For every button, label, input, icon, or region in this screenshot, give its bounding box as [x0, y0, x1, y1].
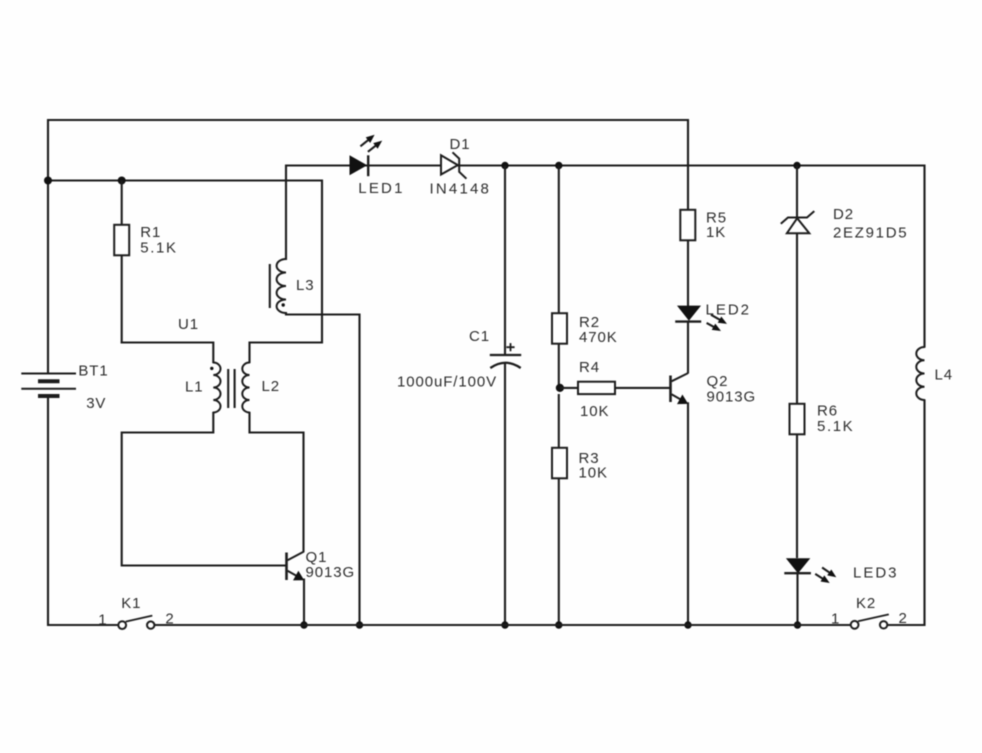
node C1 top — [501, 162, 508, 169]
svg-text:R4: R4 — [579, 359, 600, 376]
svg-text:K2: K2 — [856, 595, 876, 612]
svg-text:10K: 10K — [579, 465, 608, 482]
node Q1 emitter / ground rail — [300, 621, 307, 628]
svg-text:L3: L3 — [296, 277, 315, 294]
node C1 bottom rail — [501, 621, 508, 628]
svg-text:L4: L4 — [935, 367, 954, 384]
LED LED2 — [677, 306, 701, 321]
LED LED3 — [786, 558, 810, 573]
svg-text:LED2: LED2 — [706, 302, 752, 319]
capacitor C1 — [504, 166, 506, 356]
svg-text:9013G: 9013G — [306, 564, 356, 581]
LED LED1 — [350, 155, 368, 175]
transistor Q2 — [669, 376, 672, 403]
battery BT1 — [21, 374, 76, 397]
winding L1 — [213, 363, 220, 413]
polarity dot L3 — [282, 303, 285, 306]
resistor R5 — [687, 119, 689, 211]
svg-text:L1: L1 — [185, 379, 204, 396]
node R2 top — [555, 162, 562, 169]
resistor R1 — [121, 181, 123, 226]
node junction at left rail — [44, 177, 52, 185]
svg-text:L2: L2 — [262, 378, 281, 395]
winding L3 with branch wires — [285, 165, 287, 261]
svg-text:D1: D1 — [450, 136, 471, 153]
wire bottom rail segments — [48, 624, 118, 626]
svg-text:BT1: BT1 — [78, 363, 108, 380]
wire left vertical (battery branch) — [47, 119, 49, 374]
resistor R2 — [558, 166, 560, 315]
node R2/R3/R4 junction — [556, 384, 564, 392]
diode D1 IN4148 — [441, 155, 458, 174]
svg-text:Q2: Q2 — [707, 373, 729, 390]
wire LED2 to Q2 collector — [687, 322, 689, 374]
svg-text:C1: C1 — [469, 328, 490, 345]
svg-text:3V: 3V — [86, 395, 106, 412]
switch K1 — [118, 621, 126, 629]
svg-text:2: 2 — [899, 610, 908, 627]
transformer core — [227, 369, 229, 408]
wire R1 to L1 top — [121, 343, 214, 364]
zener diode D2 — [796, 166, 798, 218]
wire +V sub rail — [48, 179, 322, 181]
svg-text:1000uF/100V: 1000uF/100V — [397, 374, 497, 391]
svg-text:D2: D2 — [833, 206, 854, 223]
wire D2 to R6 — [796, 233, 798, 403]
L3 core bar — [269, 264, 271, 308]
svg-text:1: 1 — [98, 612, 107, 629]
node junction at R1 top — [118, 177, 126, 185]
node D2 top — [793, 162, 800, 169]
node L3 branch / bottom rail — [356, 621, 363, 628]
wire top rail — [48, 119, 688, 121]
wire Q1 emitter to bottom rail — [303, 579, 305, 627]
svg-text:2: 2 — [165, 611, 174, 628]
svg-text:1: 1 — [831, 611, 840, 628]
svg-text:1K: 1K — [706, 224, 726, 241]
wire L2 top to +V rail — [250, 180, 323, 364]
svg-text:5.1K: 5.1K — [817, 418, 854, 435]
winding L2 — [242, 363, 249, 413]
wire L3 bottom to bottom rail — [286, 312, 360, 626]
resistor R4 — [560, 387, 578, 389]
svg-text:LED3: LED3 — [853, 565, 899, 582]
node R3 bottom rail — [555, 621, 562, 628]
svg-text:9013G: 9013G — [707, 389, 757, 406]
svg-text:470K: 470K — [579, 329, 618, 346]
wire L1 bottom to Q1 base — [122, 412, 286, 566]
wire L2 bottom to Q1 collector — [250, 412, 304, 552]
svg-text:2EZ91D5: 2EZ91D5 — [833, 225, 908, 242]
svg-text:LED1: LED1 — [358, 180, 404, 197]
svg-text:R6: R6 — [817, 403, 838, 420]
node LED3 bottom rail — [794, 621, 801, 628]
resistor R3 — [558, 394, 560, 449]
svg-text:5.1K: 5.1K — [140, 240, 177, 257]
winding L4 — [923, 165, 925, 348]
svg-text:R1: R1 — [140, 224, 161, 241]
svg-text:K1: K1 — [121, 595, 141, 612]
transistor Q1 — [285, 553, 288, 581]
svg-text:IN4148: IN4148 — [430, 181, 492, 198]
polarity dot L1 — [210, 367, 213, 370]
wire Q2 emitter to bottom rail — [687, 402, 689, 626]
node Q2 emitter bottom rail — [684, 621, 691, 628]
switch K2 — [851, 621, 859, 629]
svg-text:10K: 10K — [580, 403, 609, 420]
wire second rail (+9V) — [286, 164, 925, 166]
svg-text:U1: U1 — [178, 316, 199, 333]
wire LED3 to bottom rail — [796, 573, 798, 626]
resistor R6 — [790, 404, 805, 435]
